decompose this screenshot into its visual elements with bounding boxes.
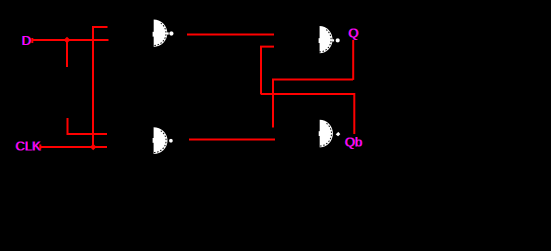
- NAND gate U4 (bottom right): [319, 120, 341, 148]
- wire Q feedback horizontal and drop to U4: [273, 80, 353, 128]
- wire U1 output to U2: [187, 34, 274, 36]
- wire Qb feedback horizontal and riser: [261, 94, 354, 134]
- junction dot on D wire: [64, 37, 71, 44]
- svg-text:D: D: [22, 33, 31, 48]
- output label Qb: [344, 135, 363, 150]
- wire U2 lower input stub: [261, 47, 274, 95]
- wire stub down from D junction: [66, 40, 68, 67]
- wire U3 output to U4: [189, 139, 275, 141]
- svg-text:Qb: Qb: [345, 135, 362, 150]
- wire L-segment to lower NAND U3 top input: [68, 118, 108, 134]
- wire from CLK input: [41, 146, 107, 148]
- svg-text:Q: Q: [348, 25, 358, 40]
- pin marker of D input: [31, 38, 33, 43]
- wire stub to U1 top input: [92, 26, 108, 28]
- NAND gate U2 (top right): [319, 26, 340, 53]
- svg-text:CLK: CLK: [16, 138, 42, 153]
- pin marker of CLK input: [39, 145, 41, 150]
- NAND gate U1 (top left): [153, 20, 174, 47]
- wire CLK riser vertical: [92, 27, 94, 147]
- output label Q: [348, 25, 360, 40]
- input label D: [21, 33, 32, 48]
- wire from D input: [33, 39, 109, 41]
- wire Q output vertical: [352, 40, 354, 80]
- NAND gate U3 (bottom left): [153, 127, 173, 154]
- input label CLK: [15, 138, 42, 153]
- junction dot on CLK wire: [90, 144, 96, 150]
